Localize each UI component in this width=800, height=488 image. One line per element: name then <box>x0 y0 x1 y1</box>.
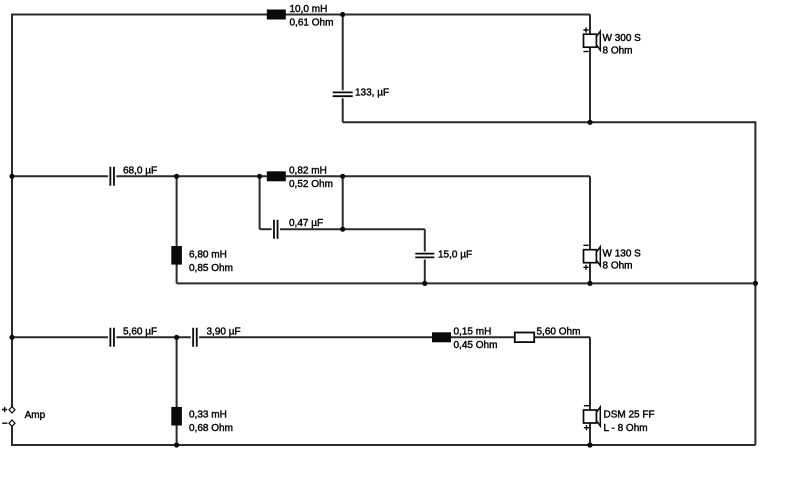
polarity - W130S <box>583 244 588 246</box>
wire bottom row seg1 <box>12 336 108 338</box>
svg-text:15,0 µF: 15,0 µF <box>438 250 472 261</box>
polarity + W300S <box>583 27 588 32</box>
terminal - amp <box>9 420 15 426</box>
node 0.47uF/15uF <box>340 227 345 232</box>
capacitor 68,0 uF <box>110 167 114 186</box>
wire W130S return <box>589 263 591 284</box>
wire 15uF bottom lead <box>424 260 426 284</box>
svg-text:0,15 mH: 0,15 mH <box>454 326 492 337</box>
svg-text:W 300 S: W 300 S <box>603 33 642 44</box>
speaker W 130 S <box>584 247 601 266</box>
wire middle row seg2 <box>116 175 590 177</box>
wire W130S feed <box>589 176 591 249</box>
wire 0.47uF seg1 <box>260 228 272 230</box>
resistor 5,60 Ohm <box>515 333 534 343</box>
wire top row <box>12 14 590 16</box>
svg-text:8 Ohm: 8 Ohm <box>603 261 633 272</box>
wire DSM return <box>589 423 591 445</box>
wire W300S feed <box>589 15 591 35</box>
node W130S return <box>587 281 592 286</box>
node DSM return <box>587 442 592 447</box>
svg-text:0,45 Ohm: 0,45 Ohm <box>454 340 498 351</box>
wire 0.33mH branch <box>176 337 178 445</box>
svg-text:68,0 µF: 68,0 µF <box>123 165 157 176</box>
node left/middle row <box>9 174 14 179</box>
wire 133uF bottom lead <box>342 98 344 122</box>
svg-text:0,82 mH: 0,82 mH <box>289 165 327 176</box>
svg-text:W 130 S: W 130 S <box>603 249 642 260</box>
node top/133uF <box>340 12 345 17</box>
capacitor 0,47 uF <box>274 220 278 239</box>
terminal + amp <box>9 407 15 413</box>
amp + sign <box>2 407 7 412</box>
svg-text:10,0 mH: 10,0 mH <box>290 4 328 15</box>
capacitor 5,60 uF <box>110 328 114 347</box>
svg-text:5,60 µF: 5,60 µF <box>123 326 157 337</box>
wire DSM feed <box>589 337 591 410</box>
wire middle return <box>177 282 756 284</box>
svg-text:8 Ohm: 8 Ohm <box>603 45 633 56</box>
speaker DSM 25 FF <box>584 407 601 426</box>
inductor 0,82 mH <box>267 171 286 181</box>
svg-text:0,85 Ohm: 0,85 Ohm <box>189 263 233 274</box>
node 0.33mH return <box>174 442 179 447</box>
node bottom/0.33mH <box>174 335 179 340</box>
wire left rail <box>11 14 13 407</box>
svg-text:L - 8 Ohm: L - 8 Ohm <box>604 423 648 434</box>
svg-text:0,61 Ohm: 0,61 Ohm <box>290 18 334 29</box>
capacitor 133 uF <box>333 92 353 96</box>
wire 6.8mH branch <box>176 176 178 283</box>
node 0.82mH out <box>340 174 345 179</box>
inductor 10,0 mH <box>267 10 286 20</box>
wire W300S return <box>589 47 591 122</box>
wire 0.47uF seg2 <box>280 228 425 230</box>
wire bottom row seg2 <box>116 336 191 338</box>
wire 0.47uF down <box>259 176 261 229</box>
node W300S return <box>587 120 592 125</box>
svg-text:0,33 mH: 0,33 mH <box>189 409 227 420</box>
polarity - DSM <box>584 405 589 407</box>
node middle return/right rail <box>753 281 758 286</box>
wire right rail <box>754 121 756 445</box>
svg-text:0,47 µF: 0,47 µF <box>289 218 323 229</box>
speaker W 300 S <box>584 31 601 50</box>
svg-text:0,68 Ohm: 0,68 Ohm <box>189 423 233 434</box>
polarity - W300S <box>583 51 588 53</box>
svg-text:6,80 mH: 6,80 mH <box>189 249 227 260</box>
polarity + DSM <box>584 425 589 430</box>
svg-text:DSM 25 FF: DSM 25 FF <box>604 409 655 420</box>
svg-text:3,90 µF: 3,90 µF <box>207 326 241 337</box>
wire middle row seg1 <box>12 175 108 177</box>
wire 133uF top lead <box>342 15 344 91</box>
svg-text:Amp: Amp <box>25 410 46 421</box>
amp - sign <box>2 422 7 424</box>
capacitor 15,0 uF <box>415 254 434 258</box>
capacitor 3,90 uF <box>193 328 197 347</box>
wire LC link <box>342 176 344 229</box>
wire bottom rail <box>12 426 755 445</box>
wire upper return <box>343 121 756 123</box>
polarity + W130S <box>583 265 588 270</box>
wire 15uF top lead <box>424 229 426 251</box>
node middle/6.8mH <box>174 174 179 179</box>
inductor 0,15 mH <box>432 332 451 342</box>
svg-text:5,60 Ohm: 5,60 Ohm <box>537 326 581 337</box>
svg-text:0,52 Ohm: 0,52 Ohm <box>289 179 333 190</box>
node middle/0.47uF <box>257 174 262 179</box>
inductor 0,33 mH <box>171 407 182 426</box>
svg-text:133, µF: 133, µF <box>355 88 389 99</box>
wire bottom row seg3 <box>199 336 590 338</box>
node left/bottom row <box>9 335 14 340</box>
node 15uF return <box>422 281 427 286</box>
inductor 6,80 mH <box>171 246 182 265</box>
